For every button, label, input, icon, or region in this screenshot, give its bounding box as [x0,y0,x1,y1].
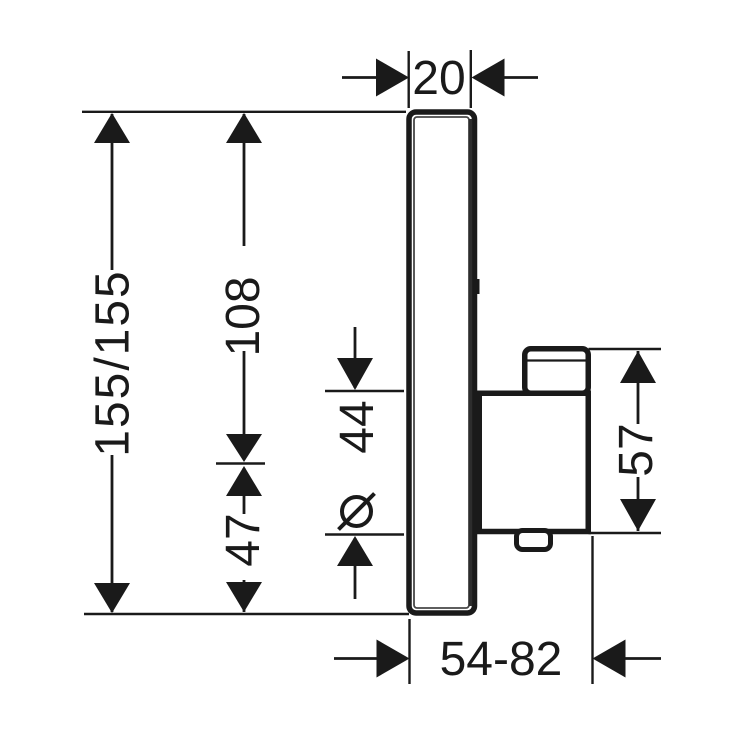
arrow 47 bottom [226,582,262,612]
svg-text:155/155: 155/155 [87,269,140,457]
dim line 44 upper [354,327,357,388]
extension line 57 bottom [589,532,662,534]
dim line 57 upper [637,351,640,424]
dim line 20 right tail [504,76,538,79]
extension line 20 right [470,50,472,108]
extension line left top [82,111,406,113]
dim line 47 upper [243,468,246,514]
plate right-edge nub [477,279,480,294]
svg-text:44: 44 [331,400,384,453]
svg-text:57: 57 [610,423,663,476]
plate right inner edge fill [469,119,472,606]
arrow 44 top [337,358,373,390]
dim line 54-82 right tail [625,657,661,660]
svg-text:108: 108 [217,276,270,356]
dim line 108 lower [243,351,246,460]
dim line 47 lower [243,580,246,612]
dim line 155/155 upper [111,114,114,270]
extension line 54-82 right [591,536,593,684]
arrow 57 bottom [620,499,656,531]
knob bottom tab [517,531,551,550]
extension line 54-82 left [408,619,410,684]
tick 108/47 junction [216,462,265,464]
dim line 155/155 lower [111,455,114,612]
plate outer body [409,112,475,613]
arrow 47 top [226,466,262,496]
arrow 20 left [376,59,409,97]
arrow 44 bottom [337,536,373,566]
svg-text:47: 47 [217,513,270,566]
svg-text:54-82: 54-82 [440,633,563,686]
dim line 44 lower [354,538,357,599]
arrow 57 top [620,351,656,383]
arrow 155/155 bottom [94,583,130,613]
extension tick 44 top [325,390,404,392]
svg-text:20: 20 [412,52,465,105]
arrow 108 bottom [226,434,262,462]
extension tick 44 bottom [325,533,404,535]
extension line 57 top [589,348,662,350]
label diameter sign [342,497,371,526]
dim line 20 left tail [342,76,377,79]
plate inner face line [414,117,469,608]
arrow 108 top [226,113,262,143]
knob body [479,393,588,531]
arrow 54-82 left [377,640,410,678]
extension line 20 left [408,51,410,108]
arrow 54-82 right [593,640,626,678]
knob top tab inner line [526,359,586,361]
extension line left bottom [84,613,409,615]
dim line 54-82 left tail [334,657,377,660]
arrow 20 right [472,59,505,97]
knob top tab [525,349,589,394]
dim line 108 upper [243,114,246,246]
dim line 57 lower [637,477,640,531]
arrow 155/155 top [94,113,130,143]
